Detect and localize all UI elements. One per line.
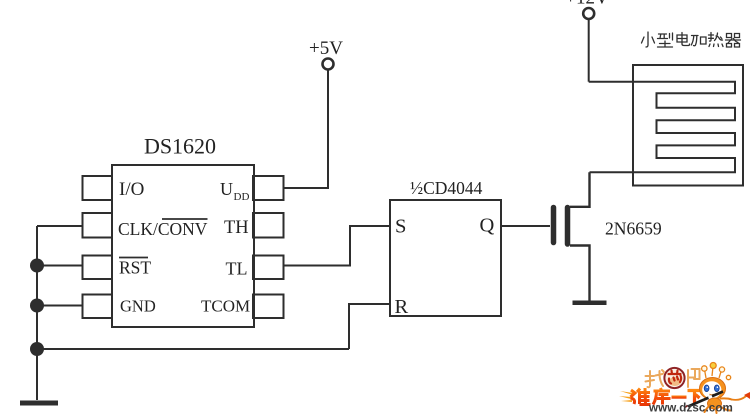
char 电 [677,33,690,46]
svg-text:TL: TL [226,259,248,279]
wire GND to bus [37,305,83,307]
label 小型电加热器 [642,32,741,47]
char 小 [642,32,655,47]
wire TL to S [284,226,390,266]
svg-text:TH: TH [224,218,249,238]
pen [688,392,723,407]
svg-text:+12V: +12V [565,0,609,9]
svg-text:DD: DD [234,191,250,203]
limbs [705,398,732,413]
svg-text:RST: RST [119,258,151,278]
magnifier ring [663,366,686,389]
char 下 (orange) [688,391,704,405]
char 器 [726,34,741,48]
IC U1 DS1620 body [112,134,254,328]
tail swirl [732,395,750,400]
char 库 (orange) [653,388,671,405]
wire bottom bus [37,348,349,350]
pin GND [83,295,156,319]
svg-text:S: S [395,216,406,238]
wire drain to heater [570,172,590,207]
latch U2 half CD4044 [390,178,501,318]
pin I/O [83,176,145,200]
power terminal +12V (clipped at image top) [565,0,609,19]
char 热 [709,33,724,47]
heater element meander [589,82,735,173]
transistor Q1 2N6659 [554,208,662,245]
svg-text:DS1620: DS1620 [144,134,216,159]
char 维 (orange) [631,388,651,405]
char 一 (orange) [672,396,687,399]
wire left bus vertical [36,226,38,400]
power terminal +5V [309,38,343,70]
char 片 (tan outline) [688,369,700,387]
pin CLK/CONV [83,213,208,239]
mascot face [702,381,721,398]
wire RST to bus [37,265,83,267]
svg-text:Q: Q [480,215,495,237]
wire +12V stem [588,20,590,82]
heater box [633,65,743,186]
wire CLK/CONV to left bus [37,225,83,227]
junction node at RST [30,259,44,273]
mascot crown [702,363,731,380]
svg-text:CLK/CONV: CLK/CONV [118,219,208,239]
svg-text:www.dzsc.com: www.dzsc.com [648,402,733,414]
wire source to ground [570,246,590,301]
svg-text:U: U [220,179,233,199]
wire bottom bus to R [349,304,390,349]
ground (left) [20,401,58,406]
svg-text:GND: GND [120,297,156,316]
mouth [710,393,714,396]
wire +5V stem to UDD pin [284,70,328,188]
svg-text:+5V: +5V [309,38,343,59]
pin RST [83,256,152,280]
char 找 (tan outline) [646,370,665,387]
mascot head [700,378,726,400]
char 芯 inside magnifier [669,371,682,384]
speed lines [619,391,633,402]
junction node at bottom bus [30,342,44,356]
pin UDD [220,176,284,203]
char 加 [691,36,706,46]
pin TL [226,256,284,280]
watermark logo dzsc [619,363,750,414]
svg-text:TCOM: TCOM [201,297,250,316]
junction node at GND [30,299,44,313]
eyes [704,385,709,392]
svg-text:I/O: I/O [119,179,144,200]
wire Q to gate [501,225,550,227]
ground (transistor) [573,301,607,306]
svg-text:R: R [395,296,409,318]
body [708,398,722,409]
pin TCOM [201,295,284,319]
svg-text:2N6659: 2N6659 [605,219,662,239]
svg-text:½CD4044: ½CD4044 [410,178,483,198]
char 型 [658,33,673,47]
pin TH [224,213,284,238]
